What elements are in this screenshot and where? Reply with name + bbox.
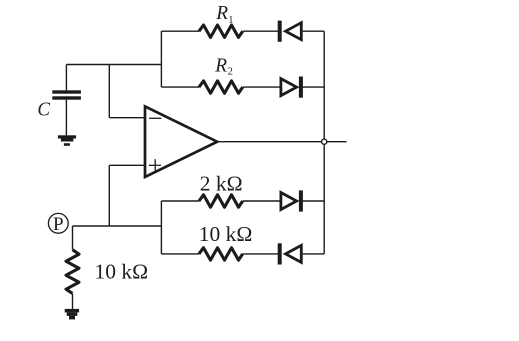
resistor 2 kOhm — [199, 195, 243, 207]
wire: D2 to right vertical — [303, 86, 325, 88]
diode D4 cathode bar (points left) — [278, 243, 282, 264]
wire: op-amp output — [217, 141, 346, 143]
diode D1 cathode bar (points left) — [278, 21, 282, 42]
wire: D1 to right vertical — [303, 30, 325, 32]
capacitor C top plate — [52, 90, 81, 93]
op-amp plus sign — [149, 164, 161, 166]
svg-text:P: P — [53, 214, 64, 235]
wire: R2 to diode D2 — [243, 86, 281, 88]
resistor R1 — [199, 25, 243, 37]
wire: 2k branch left segment — [161, 200, 199, 202]
wire: 10k to diode D4 — [243, 253, 278, 255]
resistor 10 kOhm (vertical) — [66, 250, 79, 294]
wire: node P down lead — [72, 226, 74, 249]
wire: inverting input horizontal to op-amp — [109, 117, 145, 119]
svg-text:2 kΩ: 2 kΩ — [200, 172, 243, 196]
resistor R2 — [199, 81, 243, 93]
svg-text:2: 2 — [228, 66, 233, 77]
wire: R2 branch left segment — [161, 86, 199, 88]
diode D3 cathode bar — [299, 190, 303, 211]
svg-text:R: R — [214, 55, 227, 77]
svg-text:1: 1 — [228, 15, 233, 26]
wire: capacitor top lead — [65, 65, 67, 91]
wire: capacitor top wire to feedback node — [66, 64, 161, 66]
svg-text:10 kΩ: 10 kΩ — [199, 222, 253, 246]
resistor 10 kOhm (horizontal) — [199, 248, 243, 260]
wire: vertical resistor bottom lead — [72, 294, 74, 309]
wire: R1 branch left segment — [161, 30, 199, 32]
diode D4 triangle — [286, 245, 302, 262]
wire: node P horizontal — [73, 225, 162, 227]
svg-text:R: R — [215, 2, 228, 24]
capacitor C bottom plate — [52, 96, 81, 99]
wire: R1 to diode D1 — [243, 30, 278, 32]
ground (below 10k resistor) — [65, 309, 79, 320]
wire: non-inverting input horizontal to op-amp — [109, 164, 145, 166]
diode D3 triangle (points right) — [281, 193, 297, 210]
wire: D3 to right vertical — [303, 200, 325, 202]
ground (below capacitor) — [58, 135, 76, 146]
wire: left vertical joining 2k/10k branches — [160, 201, 162, 254]
diode D2 triangle (points right) — [281, 79, 297, 96]
wire: inverting input vertical from feedback node — [108, 65, 110, 118]
svg-text:10 kΩ: 10 kΩ — [95, 260, 149, 284]
diode D2 cathode bar — [299, 77, 303, 98]
node: output terminal circle — [322, 139, 327, 144]
wire: D4 to right vertical — [303, 253, 325, 255]
node P terminal circle — [48, 213, 68, 233]
wire: right vertical bus — [323, 31, 325, 254]
op-amp minus sign — [149, 117, 161, 119]
wire: 10k branch left segment — [161, 253, 199, 255]
op-amp U1 — [145, 106, 217, 177]
wire: 2k to diode D3 — [243, 200, 281, 202]
wire: non-inverting input vertical down to node P — [108, 165, 110, 226]
svg-text:C: C — [37, 99, 50, 121]
wire: left vertical joining R1/R2 branches — [160, 31, 162, 87]
diode D1 triangle — [286, 23, 302, 40]
wire: capacitor bottom lead — [65, 100, 67, 136]
